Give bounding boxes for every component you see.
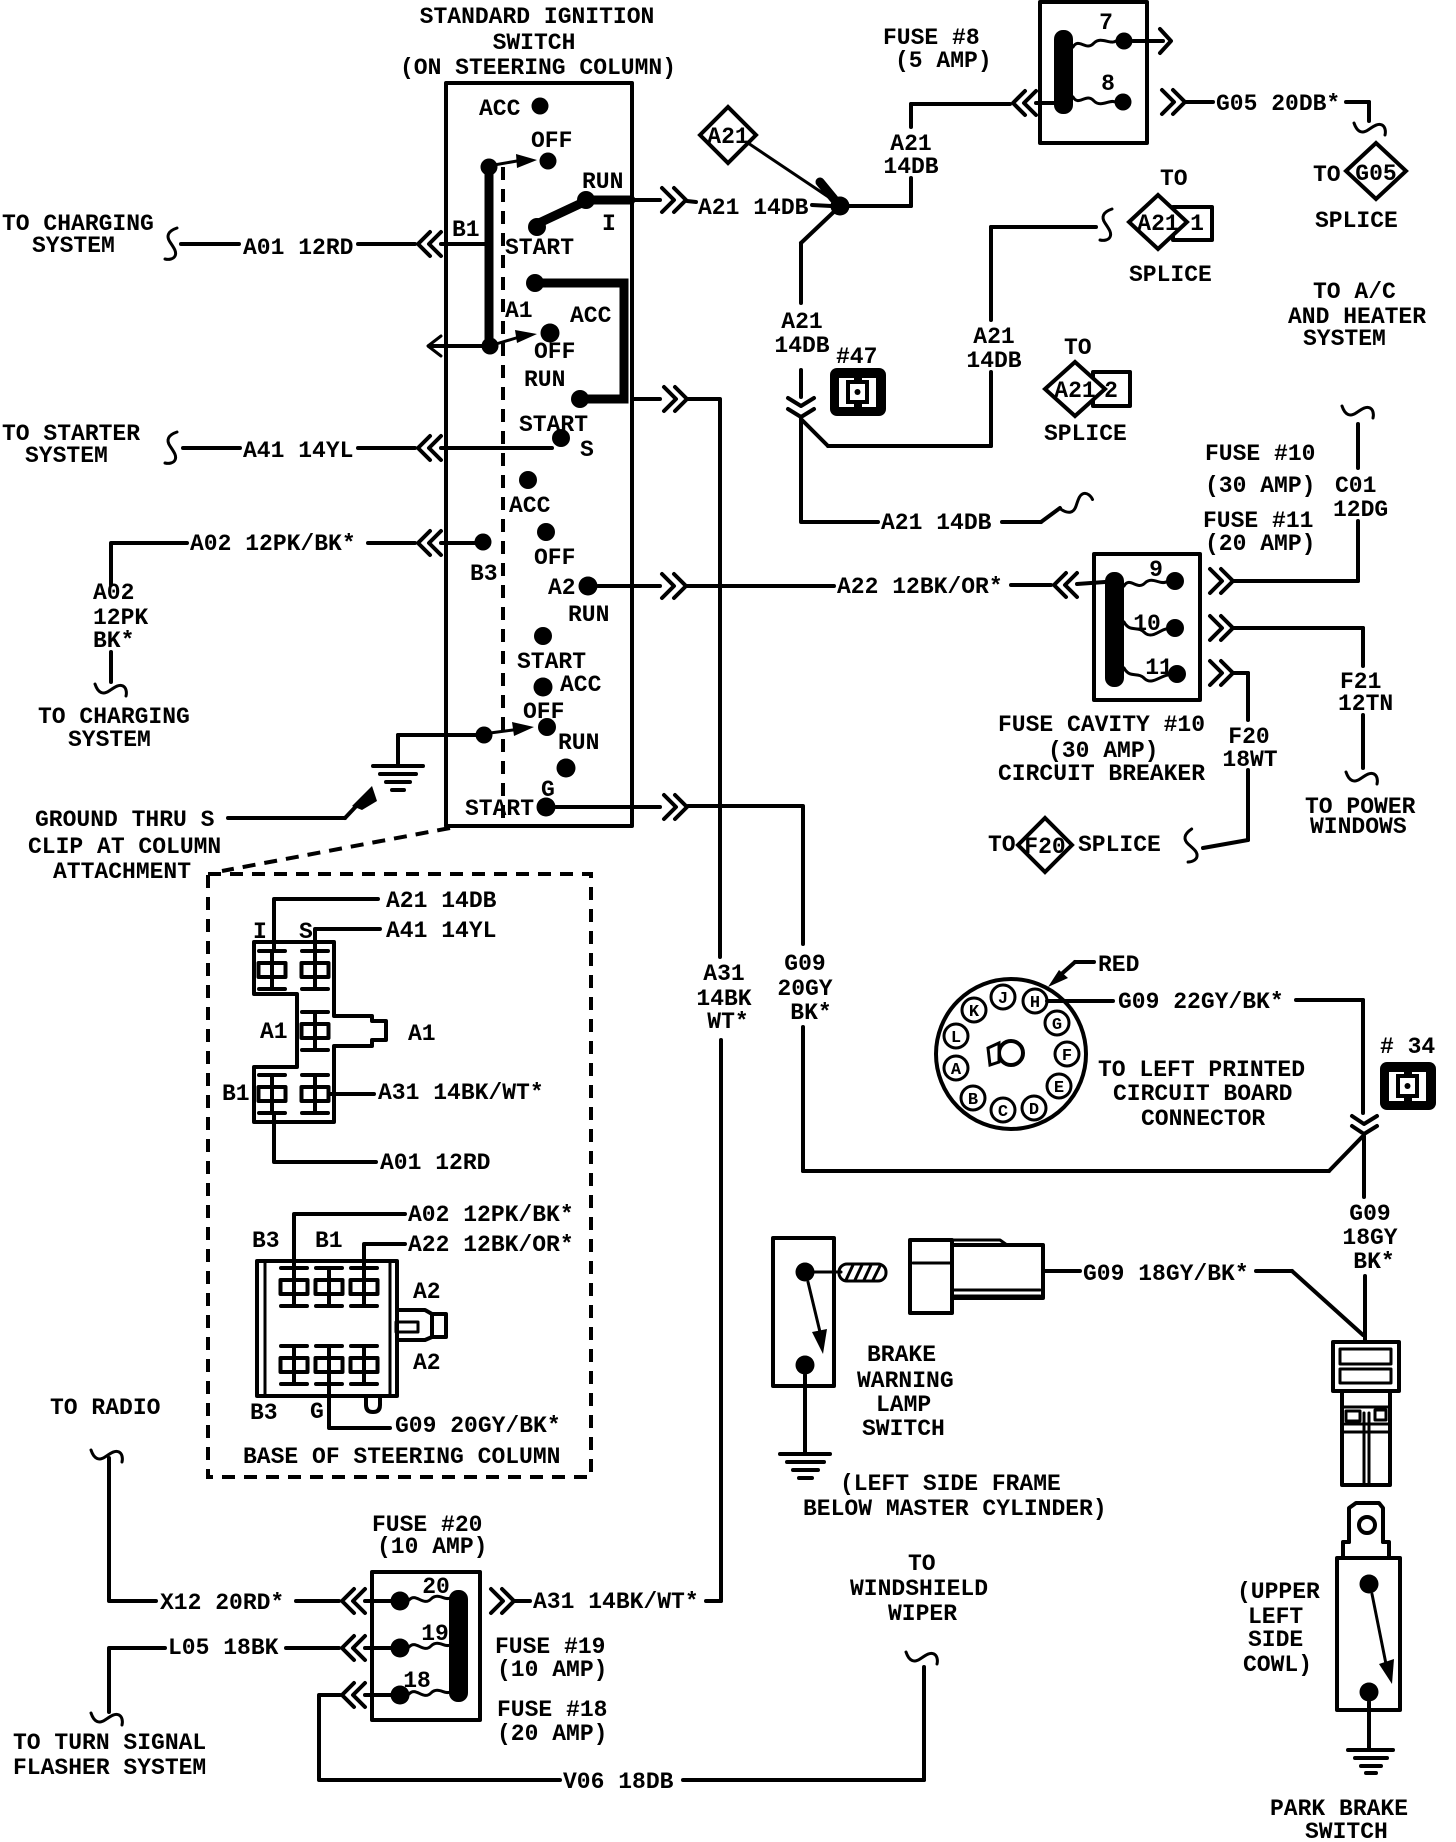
- svg-text:20: 20: [422, 1574, 450, 1600]
- svg-text:FUSE #18: FUSE #18: [497, 1697, 607, 1723]
- svg-text:F: F: [1062, 1047, 1072, 1066]
- svg-text:10: 10: [1133, 611, 1161, 637]
- svg-text:CLIP AT COLUMN: CLIP AT COLUMN: [28, 834, 221, 860]
- svg-text:A21 14DB: A21 14DB: [881, 510, 992, 536]
- svg-text:8: 8: [1101, 71, 1115, 97]
- svg-text:SPLICE: SPLICE: [1044, 421, 1127, 447]
- svg-text:A02 12PK/BK*: A02 12PK/BK*: [408, 1202, 574, 1228]
- svg-text:(LEFT SIDE FRAME: (LEFT SIDE FRAME: [840, 1471, 1061, 1497]
- svg-text:A41 14YL: A41 14YL: [243, 438, 353, 464]
- svg-text:V06 18DB: V06 18DB: [563, 1769, 674, 1795]
- svg-text:WARNING: WARNING: [857, 1368, 954, 1394]
- svg-text:I: I: [253, 919, 267, 945]
- svg-text:FUSE CAVITY #10: FUSE CAVITY #10: [998, 712, 1205, 738]
- svg-text:D: D: [1029, 1101, 1039, 1120]
- svg-text:SYSTEM: SYSTEM: [1303, 326, 1386, 352]
- svg-text:S: S: [299, 919, 313, 945]
- svg-text:STANDARD IGNITION: STANDARD IGNITION: [420, 4, 655, 30]
- svg-text:COWL): COWL): [1243, 1652, 1312, 1678]
- svg-text:WT*: WT*: [707, 1009, 748, 1035]
- svg-text:G09: G09: [784, 951, 825, 977]
- svg-text:A21: A21: [1137, 211, 1178, 237]
- svg-text:SWITCH: SWITCH: [862, 1416, 945, 1442]
- svg-text:G09 22GY/BK*: G09 22GY/BK*: [1118, 989, 1284, 1015]
- svg-text:A21: A21: [973, 324, 1014, 350]
- svg-text:SIDE: SIDE: [1248, 1627, 1303, 1653]
- svg-text:SPLICE: SPLICE: [1315, 208, 1398, 234]
- svg-text:BK*: BK*: [1353, 1249, 1394, 1275]
- svg-text:G: G: [310, 1399, 324, 1425]
- svg-text:TO: TO: [988, 832, 1016, 858]
- svg-text:ACC: ACC: [479, 96, 521, 122]
- svg-text:A01 12RD: A01 12RD: [380, 1150, 490, 1176]
- svg-text:A31 14BK/WT*: A31 14BK/WT*: [378, 1080, 544, 1106]
- svg-text:19: 19: [421, 1621, 449, 1647]
- svg-text:B1: B1: [222, 1081, 250, 1107]
- svg-text:RUN: RUN: [582, 169, 623, 195]
- svg-text:14DB: 14DB: [883, 154, 938, 180]
- svg-text:TO: TO: [1313, 162, 1341, 188]
- svg-text:SPLICE: SPLICE: [1129, 262, 1212, 288]
- svg-text:TO LEFT PRINTED: TO LEFT PRINTED: [1098, 1057, 1305, 1083]
- svg-text:CONNECTOR: CONNECTOR: [1141, 1106, 1265, 1132]
- svg-text:SYSTEM: SYSTEM: [68, 727, 151, 753]
- svg-text:G: G: [1052, 1016, 1062, 1035]
- svg-text:A31: A31: [703, 961, 744, 987]
- svg-text:TO RADIO: TO RADIO: [50, 1395, 160, 1421]
- svg-text:A22 12BK/OR*: A22 12BK/OR*: [837, 574, 1003, 600]
- svg-text:(UPPER: (UPPER: [1237, 1579, 1320, 1605]
- svg-text:START: START: [519, 412, 588, 438]
- svg-text:18: 18: [403, 1668, 431, 1694]
- svg-text:WINDSHIELD: WINDSHIELD: [850, 1576, 988, 1602]
- svg-text:14DB: 14DB: [774, 333, 829, 359]
- svg-text:BASE OF STEERING COLUMN: BASE OF STEERING COLUMN: [243, 1444, 560, 1470]
- svg-text:A: A: [951, 1061, 962, 1080]
- svg-text:START: START: [505, 235, 574, 261]
- svg-text:B3: B3: [250, 1400, 278, 1426]
- svg-text:OFF: OFF: [534, 339, 575, 365]
- svg-text:S: S: [580, 437, 594, 463]
- svg-text:ACC: ACC: [570, 303, 612, 329]
- svg-text:TO A/C: TO A/C: [1313, 279, 1396, 305]
- svg-text:E: E: [1054, 1079, 1064, 1098]
- svg-text:A1: A1: [408, 1021, 436, 1047]
- svg-text:(10 AMP): (10 AMP): [497, 1657, 607, 1683]
- svg-text:RED: RED: [1098, 952, 1139, 978]
- svg-text:G09 18GY/BK*: G09 18GY/BK*: [1083, 1261, 1249, 1287]
- svg-text:A21 14DB: A21 14DB: [698, 195, 809, 221]
- svg-text:SWITCH: SWITCH: [493, 30, 576, 56]
- svg-text:SYSTEM: SYSTEM: [25, 443, 108, 469]
- svg-text:ACC: ACC: [560, 672, 602, 698]
- svg-text:A22 12BK/OR*: A22 12BK/OR*: [408, 1232, 574, 1258]
- svg-text:11: 11: [1145, 655, 1173, 681]
- svg-text:SPLICE: SPLICE: [1078, 832, 1161, 858]
- svg-text:(10 AMP): (10 AMP): [377, 1534, 487, 1560]
- svg-text:ACC: ACC: [509, 493, 551, 519]
- svg-text:I: I: [602, 211, 616, 237]
- svg-text:(20 AMP): (20 AMP): [1205, 531, 1315, 557]
- svg-text:WIPER: WIPER: [888, 1601, 957, 1627]
- svg-text:G: G: [541, 777, 555, 803]
- svg-text:K: K: [969, 1003, 980, 1022]
- svg-text:BK*: BK*: [790, 1000, 831, 1026]
- svg-text:A31 14BK/WT*: A31 14BK/WT*: [533, 1589, 699, 1615]
- svg-text:B1: B1: [315, 1228, 343, 1254]
- svg-text:A01 12RD: A01 12RD: [243, 235, 353, 261]
- svg-text:A21: A21: [707, 124, 748, 150]
- svg-text:14DB: 14DB: [966, 348, 1021, 374]
- svg-text:WINDOWS: WINDOWS: [1310, 814, 1407, 840]
- svg-text:C01: C01: [1335, 473, 1376, 499]
- svg-text:A2: A2: [413, 1279, 441, 1305]
- svg-text:G05 20DB*: G05 20DB*: [1216, 91, 1340, 117]
- svg-text:LAMP: LAMP: [876, 1392, 931, 1418]
- svg-text:A21: A21: [1054, 378, 1095, 404]
- svg-text:2: 2: [1104, 378, 1118, 404]
- svg-text:A21: A21: [781, 309, 822, 335]
- svg-text:F20: F20: [1024, 834, 1065, 860]
- svg-text:G09: G09: [1349, 1201, 1390, 1227]
- svg-text:BRAKE: BRAKE: [867, 1342, 936, 1368]
- svg-text:OFF: OFF: [534, 545, 575, 571]
- svg-text:BELOW MASTER CYLINDER): BELOW MASTER CYLINDER): [803, 1496, 1107, 1522]
- svg-text:(20 AMP): (20 AMP): [497, 1721, 607, 1747]
- svg-text:TO TURN SIGNAL: TO TURN SIGNAL: [13, 1730, 206, 1756]
- svg-text:7: 7: [1099, 10, 1113, 36]
- svg-text:FUSE #10: FUSE #10: [1205, 441, 1315, 467]
- svg-text:A21 14DB: A21 14DB: [386, 888, 497, 914]
- svg-text:RUN: RUN: [568, 602, 609, 628]
- svg-text:A1: A1: [505, 298, 533, 324]
- svg-text:1: 1: [1190, 211, 1204, 237]
- svg-text:20GY: 20GY: [777, 976, 832, 1002]
- svg-text:RUN: RUN: [524, 367, 565, 393]
- svg-text:START: START: [465, 796, 534, 822]
- svg-text:A02: A02: [93, 580, 134, 606]
- svg-text:ATTACHMENT: ATTACHMENT: [53, 859, 191, 885]
- svg-text:L: L: [951, 1029, 961, 1048]
- svg-text:BK*: BK*: [93, 628, 134, 654]
- svg-text:B: B: [968, 1091, 978, 1110]
- svg-text:GROUND THRU S: GROUND THRU S: [35, 807, 215, 833]
- svg-text:OFF: OFF: [531, 128, 572, 154]
- svg-text:SYSTEM: SYSTEM: [32, 233, 115, 259]
- svg-text:(5 AMP): (5 AMP): [895, 48, 992, 74]
- svg-text:H: H: [1030, 994, 1040, 1013]
- svg-text:# 34: # 34: [1380, 1034, 1435, 1060]
- svg-text:TO: TO: [908, 1551, 936, 1577]
- svg-text:CIRCUIT BOARD: CIRCUIT BOARD: [1113, 1081, 1292, 1107]
- svg-text:SWITCH: SWITCH: [1305, 1819, 1388, 1842]
- svg-text:G09 20GY/BK*: G09 20GY/BK*: [395, 1413, 561, 1439]
- svg-text:B1: B1: [452, 217, 480, 243]
- svg-text:A41 14YL: A41 14YL: [386, 918, 496, 944]
- svg-text:A1: A1: [260, 1019, 288, 1045]
- svg-text:18GY: 18GY: [1342, 1225, 1397, 1251]
- svg-text:CIRCUIT BREAKER: CIRCUIT BREAKER: [998, 761, 1205, 787]
- svg-text:TO: TO: [1064, 335, 1092, 361]
- svg-text:RUN: RUN: [558, 730, 599, 756]
- svg-text:G05: G05: [1355, 161, 1396, 187]
- svg-text:B3: B3: [470, 561, 498, 587]
- svg-text:12TN: 12TN: [1338, 691, 1393, 717]
- svg-text:B3: B3: [252, 1228, 280, 1254]
- svg-text:X12 20RD*: X12 20RD*: [160, 1590, 284, 1616]
- svg-text:(30 AMP): (30 AMP): [1205, 473, 1315, 499]
- svg-text:C: C: [998, 1103, 1008, 1122]
- svg-text:J: J: [998, 990, 1008, 1009]
- svg-text:FLASHER SYSTEM: FLASHER SYSTEM: [13, 1755, 206, 1781]
- svg-text:#47: #47: [836, 344, 877, 370]
- svg-text:9: 9: [1149, 557, 1163, 583]
- svg-text:OFF: OFF: [523, 699, 564, 725]
- svg-text:A2: A2: [413, 1350, 441, 1376]
- svg-text:18WT: 18WT: [1222, 747, 1277, 773]
- svg-text:(ON STEERING COLUMN): (ON STEERING COLUMN): [400, 55, 676, 81]
- svg-text:TO: TO: [1160, 166, 1188, 192]
- svg-text:12DG: 12DG: [1333, 497, 1388, 523]
- svg-text:A2: A2: [548, 575, 576, 601]
- svg-text:A02 12PK/BK*: A02 12PK/BK*: [190, 531, 356, 557]
- svg-text:L05 18BK: L05 18BK: [168, 1635, 279, 1661]
